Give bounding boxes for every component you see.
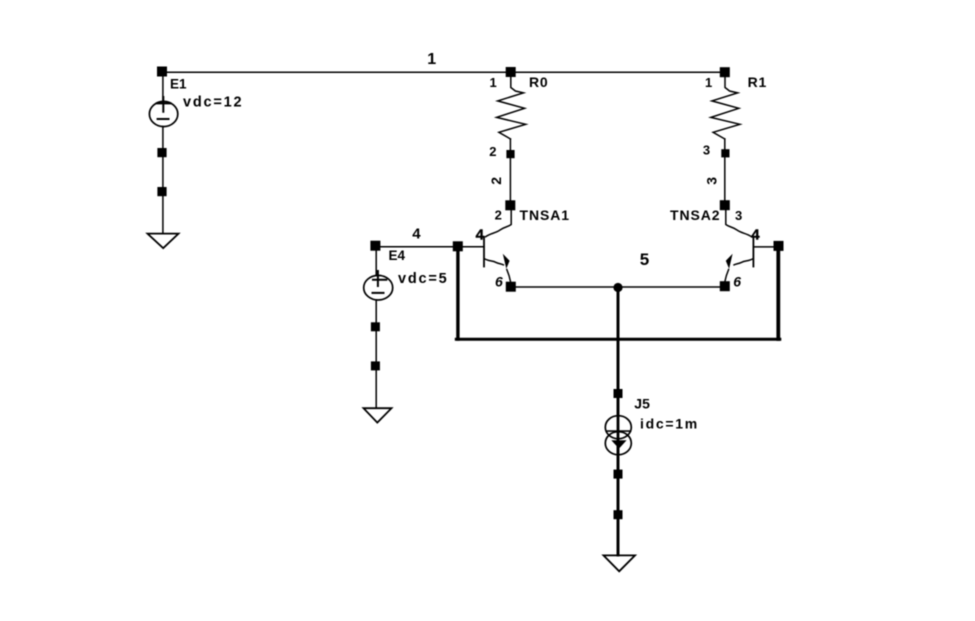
svg-text:3: 3 [703, 143, 710, 158]
svg-text:6: 6 [495, 274, 503, 290]
svg-text:R0: R0 [529, 74, 549, 90]
svg-text:vdc=5: vdc=5 [398, 271, 449, 287]
svg-text:1: 1 [427, 51, 436, 68]
svg-text:1: 1 [705, 75, 712, 90]
svg-text:idc=1m: idc=1m [640, 416, 699, 432]
svg-text:3: 3 [704, 177, 720, 185]
svg-text:6: 6 [733, 274, 741, 290]
svg-text:4: 4 [476, 227, 485, 244]
svg-text:R1: R1 [748, 74, 768, 90]
svg-text:E1: E1 [170, 77, 187, 92]
svg-text:5: 5 [640, 250, 649, 269]
svg-text:vdc=12: vdc=12 [183, 95, 243, 111]
svg-text:1: 1 [490, 75, 497, 90]
svg-text:E4: E4 [389, 248, 406, 263]
svg-text:J5: J5 [634, 396, 650, 412]
svg-text:2: 2 [488, 177, 504, 185]
svg-text:4: 4 [751, 227, 760, 244]
svg-text:TNSA2: TNSA2 [670, 207, 720, 223]
svg-text:2: 2 [489, 144, 496, 159]
svg-text:TNSA1: TNSA1 [520, 207, 570, 223]
svg-text:2: 2 [495, 208, 502, 223]
svg-text:4: 4 [412, 225, 421, 242]
